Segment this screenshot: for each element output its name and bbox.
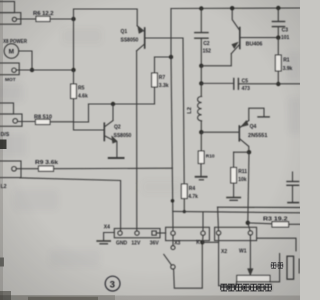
- wire W1 feed from Q4 emitter: [248, 152, 250, 231]
- wire C5 node to coil: [200, 83, 202, 96]
- resistor R3: [272, 222, 289, 227]
- wire rail x171 top corner from top bus: [170, 9, 172, 58]
- junction C2/BU406 emitter: [199, 64, 203, 68]
- wire R9 to collector line: [54, 167, 173, 170]
- wire R5 down to Q2 base: [74, 99, 104, 131]
- magnetic ring box: [287, 256, 294, 279]
- wire R7 top link to rail171: [155, 56, 172, 58]
- motor M circle: [4, 44, 19, 59]
- connector X2: [215, 227, 257, 240]
- wire R7 top lead: [154, 57, 156, 73]
- junction R4/bus2: [183, 210, 186, 213]
- junction blob on rail: [171, 199, 175, 203]
- junction Q2 collector node: [111, 102, 115, 106]
- wire D/S to R8: [18, 121, 36, 123]
- bus line 2: [173, 211, 300, 212]
- resistor R9: [39, 166, 54, 171]
- wire R11 to ground: [233, 183, 235, 197]
- junction M/MOT: [30, 68, 34, 72]
- potentiometer wiper W1: [249, 235, 251, 269]
- connector X3: [166, 227, 210, 240]
- bus line 1: [218, 206, 301, 208]
- inductor L2 coil: [198, 96, 202, 120]
- wire down to C5 node: [200, 66, 202, 84]
- wire bus2 to K pin: [202, 212, 204, 231]
- junction Q4 emitter node: [247, 150, 251, 154]
- wire pot right lead: [270, 254, 280, 282]
- wire R7 bottom lead: [154, 87, 156, 104]
- junction rail/BU406 collector: [230, 6, 234, 10]
- potentiometer body: [237, 275, 270, 281]
- resistor R10: [198, 151, 204, 164]
- capacitor right edge: [292, 172, 294, 181]
- capacitor C2: [195, 32, 208, 34]
- connector X4: [114, 229, 160, 238]
- wire rail x171 down to X3 pin1: [171, 57, 173, 231]
- resistor R11: [231, 168, 237, 184]
- wire Q4 collector hook: [249, 108, 264, 120]
- transistor Q1 SS8050: [137, 26, 144, 31]
- wire R4 bottom corner to bus2: [183, 199, 185, 212]
- connector D/S upper part: [0, 103, 14, 114]
- wire X2 right to magnetic ring: [257, 238, 296, 251]
- label magnetic ring: [271, 263, 283, 269]
- wire node A down rail: [73, 19, 75, 70]
- wire rail to R5: [73, 70, 75, 84]
- junction C5 left node: [199, 81, 203, 85]
- ground bar under Q2 emitter: [109, 157, 124, 159]
- wire R10 to ground: [200, 164, 202, 177]
- wire bracket horizontal R7-bottom to Q2-collector: [89, 103, 155, 105]
- wire node A up and over to Q1 emitter: [74, 9, 138, 26]
- capacitor C5: [201, 82, 234, 84]
- node A junction: [71, 17, 75, 21]
- top supply rail: [171, 7, 300, 10]
- ground under R11: [227, 197, 240, 199]
- resistor R8: [36, 119, 51, 124]
- wire Q1 base to x183: [146, 37, 183, 39]
- junction rail/MOT: [71, 68, 75, 72]
- resistor R4: [181, 184, 187, 199]
- resistor R1: [277, 38, 279, 55]
- wire switch return loop to K: [174, 244, 203, 288]
- wire Q2 collector riser: [112, 104, 114, 121]
- wire X4 GND to ground: [104, 233, 115, 241]
- resistor R5: [71, 84, 77, 99]
- wire X4 to X3: [156, 232, 165, 234]
- wire MOT to rail: [16, 69, 73, 71]
- junction top rail / C2: [199, 6, 203, 10]
- wire R6 to node A: [50, 18, 74, 20]
- wire edge fragment: [298, 259, 300, 273]
- transistor Q2 SS8050: [105, 121, 113, 127]
- capacitor C3: [277, 8, 279, 21]
- wire bracket vertical down: [88, 104, 90, 122]
- wire C2 bottom lead: [200, 39, 202, 66]
- wire Q1 collector down to 12V pin: [136, 51, 138, 231]
- wire x183 vertical down to R4: [183, 38, 184, 184]
- wire L2-return to X4 GND pin: [20, 178, 121, 231]
- wire conn1 to R6: [17, 18, 36, 20]
- resistor R6: [36, 16, 50, 21]
- wire R3 to edge: [289, 223, 300, 225]
- wire X2 pin1 down to pot left: [219, 235, 237, 286]
- tick bar: [258, 116, 269, 118]
- junction C3/R1/base: [276, 35, 280, 39]
- wire Q4 base: [201, 131, 238, 133]
- wire coil to Q4 base node: [200, 121, 202, 132]
- switch arm: [164, 254, 172, 265]
- connector D/S: [0, 114, 22, 126]
- label mist adjusting potentiometer: [220, 283, 274, 291]
- wire C2 top lead: [200, 9, 202, 33]
- connector X? top-left: [0, 2, 15, 13]
- wire M to MOT node: [19, 51, 32, 70]
- wire bus1 to X2 pin1: [217, 207, 220, 231]
- wire R8 to rail: [50, 121, 74, 123]
- junction R1/C5: [276, 82, 280, 86]
- wire L2 conn to R9: [16, 168, 38, 170]
- ground under X4: [97, 240, 110, 242]
- wire BU406 emitter link: [201, 54, 231, 66]
- wire link to bracket vertical: [74, 121, 89, 123]
- page number circled 3: [105, 276, 120, 291]
- resistor R7: [152, 73, 158, 87]
- wire BU406 base to C3 node: [241, 37, 278, 39]
- ground under R10: [196, 176, 207, 178]
- wire emitter node to R11: [234, 151, 249, 153]
- wire K to X2 pin1 line: [202, 241, 218, 243]
- transistor Q4 2N5551: [240, 120, 249, 127]
- junction R3 tap: [246, 221, 250, 225]
- wire K up to pin: [202, 235, 204, 242]
- junction rail171 at y57: [169, 55, 173, 59]
- transistor Q3 BU406: [231, 45, 239, 54]
- switch upper contact: [172, 235, 174, 245]
- wire to R3: [248, 222, 272, 225]
- connector MOT: [0, 63, 19, 75]
- junction K node: [200, 240, 204, 244]
- connector L2: [0, 161, 21, 178]
- junction Q4 base node: [199, 130, 203, 134]
- wire node to R10: [200, 132, 202, 151]
- junction rail/C3: [276, 6, 280, 10]
